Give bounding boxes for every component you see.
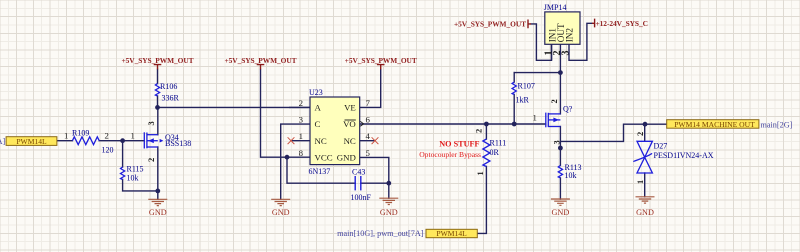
- junction at R111 top node: [484, 122, 489, 127]
- wire R106 top stem: [157, 69, 159, 83]
- svg-text:1: 1: [533, 113, 537, 123]
- svg-text:PESD1IVN24-AX: PESD1IVN24-AX: [654, 151, 714, 160]
- svg-text:0R: 0R: [490, 148, 500, 157]
- ground GND1 (Q34): [148, 199, 167, 205]
- transistor Q?: [546, 113, 561, 128]
- svg-text:NO STUFF: NO STUFF: [439, 139, 479, 148]
- svg-text:10k: 10k: [127, 174, 139, 183]
- svg-text:2: 2: [299, 98, 303, 108]
- svg-text:120: 120: [102, 145, 114, 154]
- svg-text:5: 5: [366, 148, 371, 158]
- svg-text:GND: GND: [337, 153, 356, 163]
- svg-text:10k: 10k: [565, 171, 577, 180]
- junction at R106/Q34 drain node A: [155, 105, 160, 110]
- svg-text:VE: VE: [344, 102, 356, 112]
- svg-text:3: 3: [299, 114, 304, 124]
- svg-text:GND: GND: [552, 208, 570, 217]
- svg-text:PWM14L: PWM14L: [16, 137, 47, 146]
- no-connect X pin4: [372, 137, 379, 144]
- wire U23 pin4 NC stub: [360, 140, 375, 142]
- svg-text:4: 4: [366, 131, 371, 141]
- svg-text:7: 7: [366, 98, 371, 108]
- svg-text:Optocoupler Bypass: Optocoupler Bypass: [419, 150, 481, 159]
- junction at R115/R109 node: [120, 138, 125, 143]
- ground GND3 (C43): [379, 198, 398, 204]
- svg-text:GND: GND: [636, 208, 654, 217]
- junction at VCC pin 8 node: [285, 155, 290, 160]
- svg-text:C43: C43: [352, 168, 365, 177]
- ground GND4 (R113): [551, 199, 570, 205]
- svg-text:3: 3: [561, 51, 572, 56]
- power port +5V_SYS_PWM_OUT #2: [257, 65, 265, 70]
- svg-text:1: 1: [64, 130, 68, 140]
- wire R106 bottom: [157, 96, 159, 107]
- svg-text:R106: R106: [160, 82, 177, 91]
- svg-text:IN2: IN2: [565, 28, 575, 43]
- svg-text:R107: R107: [518, 82, 535, 91]
- wire +5V#2 drop to VCC pin 8: [261, 69, 311, 157]
- wire VO net long run to Q? gate: [360, 123, 546, 125]
- power port +5V_SYS_PWM_OUT #4 (rotated): [528, 20, 531, 29]
- capacitor C43: [355, 176, 361, 190]
- wire R109 right to Q34 gate: [99, 140, 144, 142]
- svg-text:D27: D27: [654, 141, 668, 150]
- svg-text:+5V_SYS_PWM_OUT: +5V_SYS_PWM_OUT: [454, 20, 526, 29]
- svg-text:PWM14L: PWM14L: [436, 229, 467, 238]
- svg-text:1: 1: [299, 131, 303, 141]
- svg-text:2: 2: [147, 158, 156, 162]
- svg-text:6: 6: [366, 114, 371, 124]
- ground GND2 (U23 C): [271, 199, 290, 205]
- resistor R107: [512, 82, 516, 95]
- svg-text:BSS138: BSS138: [165, 139, 191, 148]
- diode D27 TVS: [633, 141, 652, 173]
- svg-text:NC: NC: [315, 136, 327, 146]
- power port +12-24V_SYS_C: [592, 19, 595, 28]
- svg-text:2: 2: [475, 129, 484, 133]
- wire R107 branch: [514, 72, 560, 74]
- wire U23 pin1 NC stub: [291, 140, 310, 142]
- resistor R113: [558, 165, 562, 178]
- wire R113 leads: [559, 141, 561, 199]
- svg-text:main[10G], pwm_out[7A]: main[10G], pwm_out[7A]: [337, 229, 424, 238]
- svg-text:336R: 336R: [162, 94, 180, 103]
- svg-text:A: A: [315, 102, 322, 112]
- svg-text:+5V_SYS_PWM_OUT: +5V_SYS_PWM_OUT: [345, 56, 417, 65]
- svg-text:GND: GND: [380, 208, 398, 217]
- svg-text:NC: NC: [344, 136, 356, 146]
- wire R111 top: [485, 124, 487, 139]
- svg-text:6N137: 6N137: [309, 167, 331, 176]
- resistor R115: [121, 167, 125, 180]
- junction at C43/GND node: [386, 181, 391, 186]
- svg-text:1: 1: [636, 180, 645, 184]
- wire R111 bottom to PWM14L label: [477, 167, 486, 234]
- junction at R115/Q34 source node: [155, 189, 160, 194]
- svg-text:8: 8: [299, 148, 304, 158]
- svg-text:2: 2: [550, 99, 559, 103]
- wire R107 leads: [513, 73, 515, 124]
- svg-text:+5V_SYS_PWM_OUT: +5V_SYS_PWM_OUT: [121, 56, 193, 65]
- wire VCC branch down to C43: [287, 157, 355, 183]
- no-connect X pin1: [288, 137, 295, 144]
- wire C43 right to GND node: [361, 182, 389, 184]
- svg-text:R115: R115: [127, 164, 144, 173]
- wire JMP14 pin3 to +12-24V port: [569, 23, 592, 60]
- svg-text:3: 3: [147, 121, 156, 125]
- svg-text:R109: R109: [72, 129, 89, 138]
- wire U23 pin7 VE to +5V: [360, 69, 381, 107]
- wire D27 drop: [644, 124, 646, 141]
- svg-text:C: C: [315, 119, 321, 129]
- svg-text:VO: VO: [343, 119, 356, 129]
- wire JMP14 pin1 to +5V port: [531, 24, 552, 60]
- junction at R113 top node: [558, 146, 563, 151]
- resistor R106: [155, 84, 159, 97]
- wire U23 pin5 GND drop: [360, 157, 389, 198]
- svg-text:1kR: 1kR: [516, 96, 530, 105]
- svg-text:7A]: 7A]: [0, 137, 5, 146]
- wire R109 left pin: [57, 140, 73, 142]
- svg-text:2: 2: [636, 132, 645, 136]
- svg-text:100nF: 100nF: [351, 193, 372, 202]
- svg-text:GND: GND: [149, 208, 167, 217]
- svg-text:2: 2: [105, 130, 109, 140]
- svg-text:1: 1: [131, 130, 135, 140]
- wire U23 pin3 C to GND: [281, 124, 310, 199]
- svg-text:+12-24V_SYS_C: +12-24V_SYS_C: [596, 19, 648, 28]
- IC U23 optocoupler: [310, 97, 360, 165]
- svg-text:U23: U23: [309, 88, 323, 97]
- wire node A row to U23 pin 2: [158, 106, 311, 108]
- transistor Q34: [144, 132, 158, 148]
- svg-text:Q?: Q?: [563, 104, 573, 113]
- wire R115 drop: [122, 141, 124, 167]
- wire output step to label: [560, 124, 666, 141]
- power port +5V_SYS_PWM_OUT #3: [377, 65, 385, 70]
- power port +5V_SYS_PWM_OUT #1: [154, 65, 162, 70]
- connector JMP14: [545, 12, 580, 44]
- wire R115 bottom to GND node: [123, 180, 158, 191]
- svg-text:1: 1: [476, 171, 485, 175]
- svg-text:PWM14 MACHINE OUT: PWM14 MACHINE OUT: [674, 120, 755, 129]
- wire JMP14 pin2 down to Q? drain: [559, 44, 561, 114]
- svg-text:JMP14: JMP14: [544, 3, 567, 12]
- junction at R107 top / JMP14 pin 2 node: [558, 70, 563, 75]
- wire D27 bottom to GND: [644, 173, 646, 197]
- ground GND5 (D27): [636, 197, 655, 203]
- junction at D27 output node: [643, 122, 648, 127]
- svg-text:+5V_SYS_PWM_OUT: +5V_SYS_PWM_OUT: [224, 56, 296, 65]
- resistor R109: [72, 137, 99, 145]
- wire Q34 drain up: [157, 107, 159, 134]
- wire Q34 source down: [157, 147, 159, 199]
- svg-text:main[2G]: main[2G]: [761, 121, 793, 130]
- svg-text:GND: GND: [272, 208, 290, 217]
- svg-text:R111: R111: [490, 138, 507, 147]
- junction at R107 bottom node: [512, 122, 517, 127]
- resistor R111: [483, 139, 490, 167]
- svg-text:3: 3: [553, 140, 562, 144]
- wire Q? source down: [559, 127, 561, 142]
- port PWM14_MACHINE_OUT (right): [667, 120, 759, 129]
- svg-text:VCC: VCC: [315, 153, 333, 163]
